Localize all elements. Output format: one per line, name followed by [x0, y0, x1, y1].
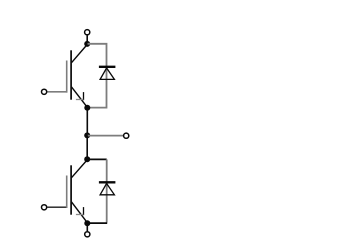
IGBT Q1 emitter arrow barb horizontal (gray) — [76, 99, 84, 101]
IGBT Q2 collector lead — [72, 160, 88, 178]
wire: upper emitter to midpoint node — [86, 108, 88, 136]
terminal: bottom emitter (E) — [85, 232, 90, 237]
wire: lower loop bottom segment (black) — [88, 222, 108, 224]
wire: lower loop vertical segment (gray) — [106, 159, 108, 222]
wire: midpoint to output terminal (gray) — [88, 135, 124, 137]
IGBT Q2 gate bar (gray) — [66, 176, 68, 208]
IGBT Q2 emitter arrow barb horizontal (gray) — [76, 214, 84, 216]
terminal: gate G2 — [42, 205, 47, 210]
IGBT Q1 collector lead — [72, 45, 88, 63]
terminal: gate G1 — [42, 89, 47, 94]
node: midpoint junction — [84, 132, 90, 138]
wire: top terminal to upper collector node — [86, 35, 88, 44]
wire: lower loop top segment (black) — [88, 158, 107, 160]
diode D1 triangle (anode) — [100, 68, 114, 79]
diode D1 cathode bar — [99, 66, 116, 68]
IGBT Q2 emitter arrow barb vertical — [83, 207, 85, 215]
wire: midpoint to lower collector node — [86, 135, 88, 159]
IGBT Q2 emitter lead — [72, 202, 88, 223]
IGBT Q1 emitter lead — [72, 87, 88, 107]
terminal: top collector (C) — [85, 30, 90, 35]
IGBT Q2 gate lead (black) — [47, 206, 67, 208]
node: upper collector junction — [84, 41, 90, 47]
diode D2 triangle (anode) — [100, 184, 114, 195]
terminal: midpoint output (AC) — [124, 133, 129, 138]
IGBT Q1 gate bar (gray) — [66, 61, 68, 93]
IGBT Q2 body bar — [70, 165, 72, 214]
node: lower collector junction — [84, 156, 90, 162]
node: upper emitter junction — [84, 105, 90, 111]
IGBT Q1 emitter arrow barb vertical — [83, 92, 85, 100]
IGBT Q1 gate lead (gray) — [47, 91, 67, 93]
wire: lower emitter node to bottom terminal — [86, 223, 88, 231]
diode D2 cathode bar — [99, 181, 116, 183]
node: lower emitter junction — [84, 220, 90, 226]
IGBT Q1 body bar — [70, 50, 72, 99]
wire: upper diode loop (gray, right side) — [88, 44, 107, 108]
